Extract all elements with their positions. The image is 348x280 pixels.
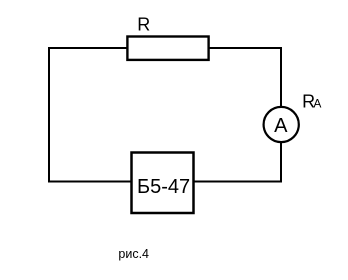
svg-text:R: R [137, 14, 150, 34]
svg-text:A: A [274, 115, 288, 137]
svg-text:A: A [313, 96, 321, 110]
svg-text:рис.4: рис.4 [118, 247, 149, 261]
svg-text:Б5-47: Б5-47 [137, 176, 190, 198]
